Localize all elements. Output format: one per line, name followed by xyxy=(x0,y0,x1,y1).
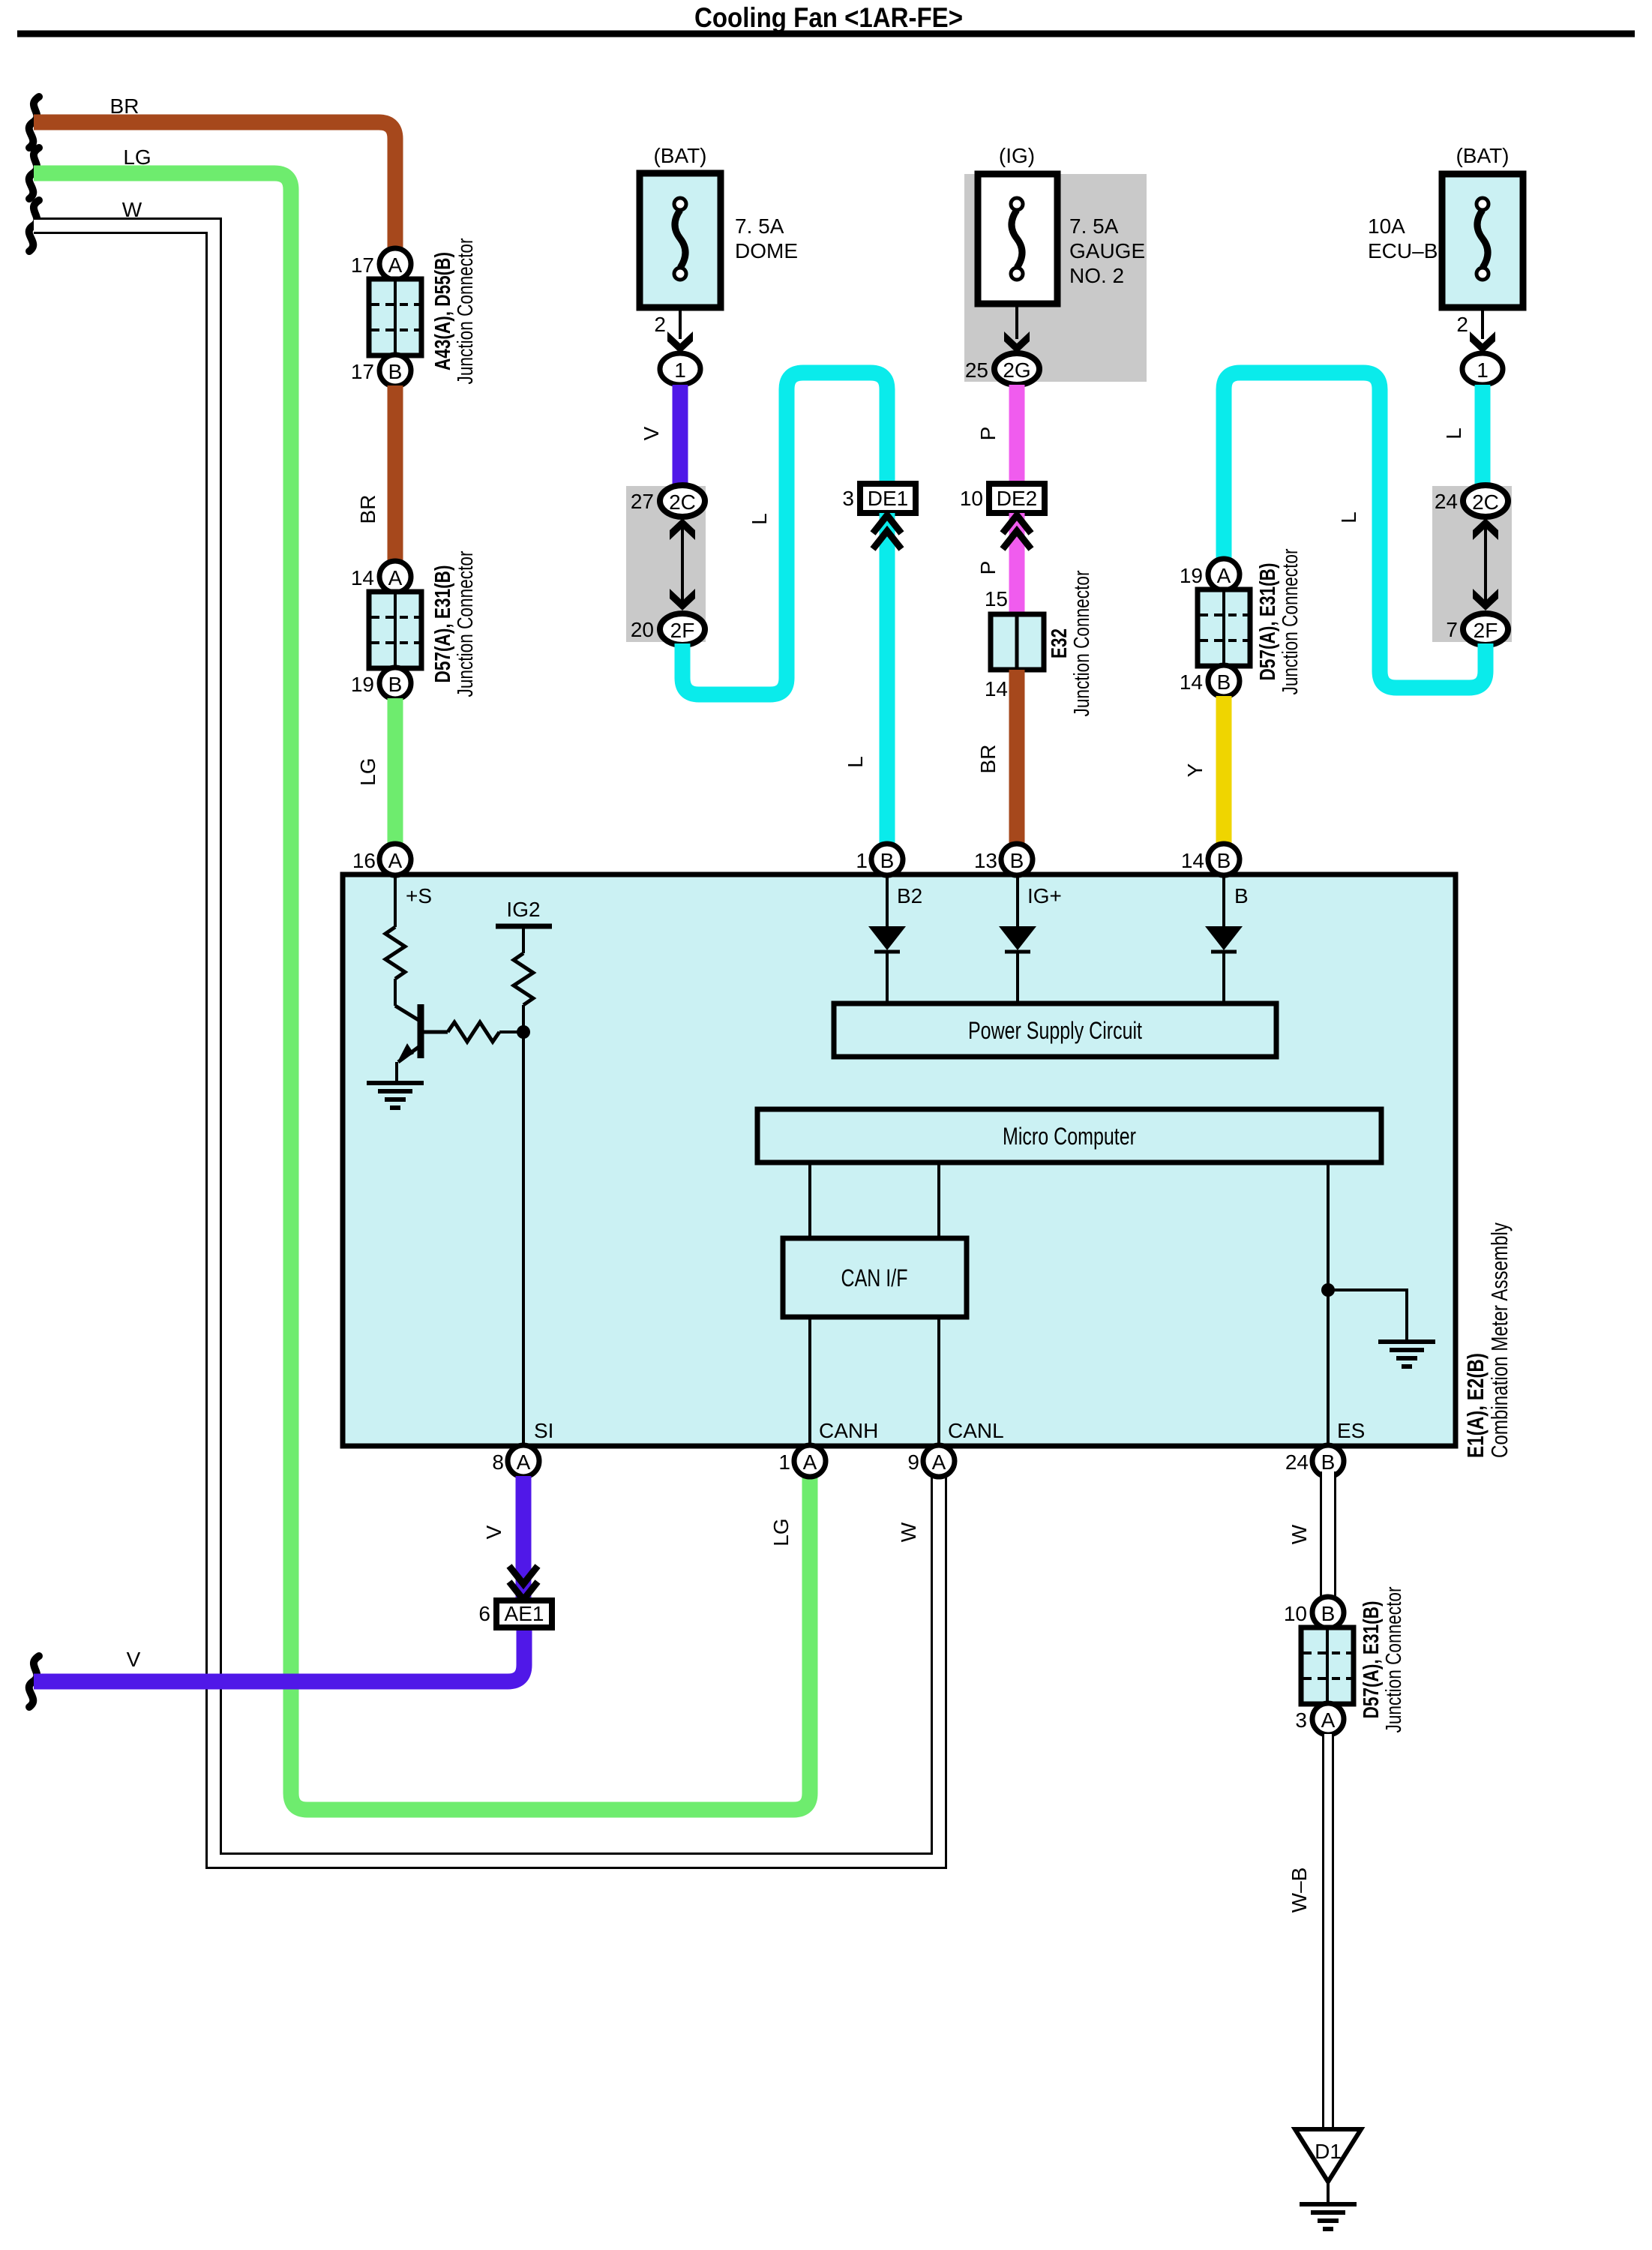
diode D2 xyxy=(868,874,906,1003)
svg-text:17: 17 xyxy=(351,253,374,277)
svg-text:AE1: AE1 xyxy=(505,1602,544,1625)
svg-text:D57(A), E31(B): D57(A), E31(B) xyxy=(431,565,455,683)
svg-text:B: B xyxy=(388,673,403,696)
svg-text:2: 2 xyxy=(654,313,666,336)
svg-text:(BAT): (BAT) xyxy=(653,144,706,167)
svg-text:Junction Connector: Junction Connector xyxy=(1382,1586,1406,1732)
CAN I/F block xyxy=(783,1238,967,1317)
svg-text:15: 15 xyxy=(985,587,1008,610)
svg-text:NO. 2: NO. 2 xyxy=(1069,264,1124,287)
svg-text:W–B: W–B xyxy=(1288,1867,1311,1913)
meter pin 1B (B2) xyxy=(856,844,922,907)
connector pass-through 2C/2F (instrument panel, right) xyxy=(1432,486,1512,642)
wire W-B from 3A to ground D1 xyxy=(1288,1734,1328,2129)
junction connector D57(A), E31(B) left pin 14A xyxy=(351,561,411,592)
wire micro computer to CAN I/F (left) xyxy=(808,1162,811,1238)
resistor R3 from IG2 xyxy=(514,953,533,1005)
wire V from SI pin to AE1 xyxy=(482,1476,523,1600)
svg-text:A: A xyxy=(388,253,403,277)
junction connector A43(A), D55(B) pin 17A xyxy=(351,248,411,280)
svg-text:Power Supply Circuit: Power Supply Circuit xyxy=(968,1017,1142,1044)
svg-text:D57(A), E31(B): D57(A), E31(B) xyxy=(1360,1601,1384,1719)
svg-text:Combination Meter Assembly: Combination Meter Assembly xyxy=(1486,1222,1513,1458)
svg-text:17: 17 xyxy=(351,360,374,383)
svg-text:3: 3 xyxy=(842,487,854,510)
svg-text:DOME: DOME xyxy=(735,239,798,262)
svg-text:L: L xyxy=(1442,427,1465,439)
svg-text:A43(A), D55(B): A43(A), D55(B) xyxy=(431,252,455,370)
connector pass-through 2C/2F (instrument panel, left) xyxy=(626,486,706,642)
connector DE2 pin 10 xyxy=(960,484,1045,513)
ground of Q1 emitter xyxy=(367,1083,424,1108)
junction node on ES xyxy=(1321,1283,1335,1297)
pin 7 connector 2F right xyxy=(1446,613,1508,645)
svg-text:2F: 2F xyxy=(1474,619,1498,642)
transistor Q1 xyxy=(395,1004,448,1083)
diode D3 xyxy=(999,874,1036,1003)
arrow between 2C and 2F right xyxy=(1473,518,1498,610)
wire L (cyan) from 2F to connector DE1 xyxy=(682,373,887,694)
svg-text:2F: 2F xyxy=(670,619,695,642)
svg-text:19: 19 xyxy=(351,673,374,696)
connector AE1 pin 6 xyxy=(478,1600,552,1627)
svg-text:GAUGE: GAUGE xyxy=(1069,239,1145,262)
wire W label at CANL leg xyxy=(897,1522,920,1542)
junction node at base divider xyxy=(517,1025,530,1039)
svg-text:SI: SI xyxy=(534,1419,553,1442)
fuse 10A ECU-B (BAT) xyxy=(1368,144,1523,307)
wire BR from 17B to 14A xyxy=(356,385,395,562)
pin 24 connector 2C right xyxy=(1435,485,1508,517)
svg-text:1: 1 xyxy=(674,358,686,382)
svg-text:V: V xyxy=(482,1525,505,1539)
svg-text:Junction Connector: Junction Connector xyxy=(1279,548,1303,694)
diode D4 xyxy=(1205,874,1243,1003)
wire V (violet) from left edge to connector AE1 xyxy=(29,1629,524,1707)
svg-text:+S: +S xyxy=(406,884,432,907)
svg-text:B: B xyxy=(1217,849,1231,872)
svg-text:IG+: IG+ xyxy=(1027,884,1062,907)
fuse 7.5A GAUGE NO.2 (IG) xyxy=(964,144,1147,382)
wire LG label at CANH leg xyxy=(769,1518,793,1546)
svg-text:L: L xyxy=(748,513,771,525)
wire micro computer to CAN I/F (right) xyxy=(937,1162,940,1238)
wire LG (light green) from left edge to CANH pin 1A xyxy=(29,145,810,1810)
power rail IG2 xyxy=(496,898,552,953)
svg-text:V: V xyxy=(127,1648,141,1671)
connector DE1 pin 3 xyxy=(842,484,916,513)
junction connector D57(A), E31(B) right body xyxy=(1198,548,1303,694)
svg-text:10A: 10A xyxy=(1368,214,1405,238)
meter pin 9A (CANL) xyxy=(907,1419,1003,1477)
svg-text:7. 5A: 7. 5A xyxy=(1069,214,1119,238)
combination meter assembly E1(A), E2(B) xyxy=(343,874,1513,1458)
svg-text:1: 1 xyxy=(856,849,868,872)
svg-text:2C: 2C xyxy=(669,490,696,514)
wire LG from 19B to meter pin 16A xyxy=(356,698,395,849)
svg-text:D57(A), E31(B): D57(A), E31(B) xyxy=(1256,563,1280,681)
svg-text:1: 1 xyxy=(778,1450,790,1474)
svg-text:19: 19 xyxy=(1180,564,1203,587)
junction connector D57(A), E31(B) left pin 19B xyxy=(351,667,411,699)
svg-text:BR: BR xyxy=(976,745,1000,774)
node 1 below ECU-B fuse xyxy=(1462,353,1503,385)
wire L from 2F right to junction connector pin 19A xyxy=(1224,373,1486,688)
meter pin 16A (+S) xyxy=(352,844,432,907)
svg-text:P: P xyxy=(976,427,1000,441)
svg-text:Junction Connector: Junction Connector xyxy=(454,550,478,697)
svg-text:DE2: DE2 xyxy=(997,487,1037,510)
wire P (pink) from 2G to connector DE2 xyxy=(976,385,1017,485)
svg-text:A: A xyxy=(1217,564,1231,587)
wire P from DE2 to junction connector E32 pin 15 xyxy=(976,513,1017,614)
harness arrow into DE2 xyxy=(1003,515,1031,549)
svg-text:7: 7 xyxy=(1446,618,1458,641)
svg-text:CANL: CANL xyxy=(948,1419,1004,1442)
svg-text:D1: D1 xyxy=(1315,2140,1342,2163)
svg-text:LG: LG xyxy=(123,145,151,169)
wire Y (yellow) from 14B to meter pin 14B xyxy=(1183,696,1224,849)
junction connector E32 xyxy=(985,570,1094,716)
harness arrow into DE1 xyxy=(873,515,901,549)
svg-text:P: P xyxy=(976,561,1000,575)
svg-text:B: B xyxy=(880,849,895,872)
svg-text:LG: LG xyxy=(356,757,379,785)
svg-text:16: 16 xyxy=(352,849,376,872)
pin 2 of ECU-B fuse xyxy=(1456,307,1495,353)
ground D1 xyxy=(1295,2129,1361,2229)
wire L from node 1 to connector 2C (right) xyxy=(1442,385,1483,487)
harness arrow into AE1 xyxy=(509,1566,538,1600)
svg-text:3: 3 xyxy=(1295,1708,1307,1732)
meter pin 14B (B) xyxy=(1181,844,1249,907)
svg-text:CANH: CANH xyxy=(819,1419,878,1442)
wire BR from E32 pin 14 to meter pin 13B xyxy=(976,670,1017,849)
internal ground branch xyxy=(1328,1290,1407,1342)
junction connector A43(A), D55(B) body xyxy=(369,238,478,384)
svg-text:A: A xyxy=(388,849,403,872)
wire V from node 1 to connector 2C xyxy=(640,385,680,487)
internal ground symbol xyxy=(1378,1342,1435,1366)
svg-text:20: 20 xyxy=(631,618,654,641)
svg-text:Junction Connector: Junction Connector xyxy=(1070,570,1094,716)
wire L from DE1 to meter pin 1B xyxy=(844,513,887,849)
meter pin 1A (CANH) xyxy=(778,1419,878,1477)
wire BR (brown) from left edge to junction connector pin 17A xyxy=(29,94,395,253)
arrow between 2C and 2F xyxy=(670,518,695,610)
svg-text:14: 14 xyxy=(351,566,374,589)
svg-text:24: 24 xyxy=(1435,490,1458,513)
svg-text:A: A xyxy=(388,566,403,589)
svg-text:V: V xyxy=(640,426,663,440)
wire W from ES pin to junction connector 10B xyxy=(1288,1471,1328,1599)
power supply circuit block xyxy=(834,1003,1276,1057)
svg-text:L: L xyxy=(844,756,867,768)
svg-text:14: 14 xyxy=(985,677,1008,700)
svg-text:B2: B2 xyxy=(897,884,922,907)
net CANL line xyxy=(937,1317,940,1446)
svg-text:2C: 2C xyxy=(1472,490,1499,514)
svg-text:Y: Y xyxy=(1183,763,1207,777)
pin 20 connector 2F xyxy=(631,613,705,645)
svg-text:B: B xyxy=(388,360,403,383)
svg-text:(BAT): (BAT) xyxy=(1456,144,1509,167)
svg-text:IG2: IG2 xyxy=(506,898,540,921)
svg-text:ES: ES xyxy=(1337,1419,1365,1442)
svg-text:24: 24 xyxy=(1285,1450,1309,1474)
svg-text:1: 1 xyxy=(1477,358,1489,382)
wire W (white) from left edge to CANL pin 9A xyxy=(29,198,939,1861)
svg-text:10: 10 xyxy=(960,487,983,510)
meter pin 8A (SI) xyxy=(492,1419,553,1477)
svg-text:Cooling Fan <1AR-FE>: Cooling Fan <1AR-FE> xyxy=(694,2,963,33)
resistor R2 (base) xyxy=(448,1022,523,1042)
svg-text:A: A xyxy=(932,1450,946,1474)
svg-text:8: 8 xyxy=(492,1450,504,1474)
meter pin 13B (IG+) xyxy=(974,844,1062,907)
svg-text:A: A xyxy=(1321,1708,1336,1732)
svg-text:B: B xyxy=(1217,670,1231,694)
svg-text:7. 5A: 7. 5A xyxy=(735,214,784,238)
svg-text:E1(A), E2(B): E1(A), E2(B) xyxy=(1462,1353,1489,1458)
svg-text:B: B xyxy=(1321,1602,1336,1625)
net ES line xyxy=(1327,1162,1330,1446)
net SI vertical line xyxy=(522,1005,525,1446)
meter pin 24B (ES) xyxy=(1285,1419,1366,1477)
svg-text:ECU–B: ECU–B xyxy=(1368,239,1438,262)
net CANH line xyxy=(808,1317,811,1446)
svg-text:(IG): (IG) xyxy=(999,144,1035,167)
pin 2 of DOME fuse xyxy=(654,307,693,353)
svg-text:9: 9 xyxy=(907,1450,919,1474)
junction connector D57(A), E31(B) left body xyxy=(369,550,478,697)
title rule xyxy=(17,31,1635,37)
svg-text:L: L xyxy=(1337,511,1360,523)
svg-text:BR: BR xyxy=(356,495,379,524)
junction connector D57(A), E31(B) bottom pin 10B xyxy=(1284,1597,1344,1628)
svg-text:Micro Computer: Micro Computer xyxy=(1003,1123,1136,1150)
pin 27 connector 2C xyxy=(631,485,705,517)
svg-text:W: W xyxy=(1288,1524,1311,1544)
junction connector D57(A), E31(B) bottom pin 3A xyxy=(1295,1703,1344,1735)
svg-text:27: 27 xyxy=(631,490,654,513)
svg-text:B: B xyxy=(1321,1450,1336,1474)
svg-text:CAN I/F: CAN I/F xyxy=(841,1264,908,1291)
title: Cooling Fan <1AR-FE> xyxy=(694,2,963,33)
node 1 below DOME fuse xyxy=(660,353,700,385)
svg-text:B: B xyxy=(1010,849,1024,872)
svg-text:W: W xyxy=(897,1522,920,1542)
svg-text:LG: LG xyxy=(769,1518,793,1546)
junction connector D57(A), E31(B) right pin 19A xyxy=(1180,559,1240,590)
micro computer block xyxy=(757,1109,1381,1162)
svg-text:E32: E32 xyxy=(1048,628,1072,658)
svg-text:2G: 2G xyxy=(1003,358,1030,382)
svg-text:25: 25 xyxy=(965,358,988,382)
pin 25 node 2G below GAUGE fuse xyxy=(965,304,1039,385)
svg-text:13: 13 xyxy=(974,849,997,872)
svg-text:14: 14 xyxy=(1181,849,1204,872)
svg-text:2: 2 xyxy=(1456,313,1468,336)
svg-text:6: 6 xyxy=(478,1602,490,1625)
svg-text:Junction Connector: Junction Connector xyxy=(454,238,478,384)
resistor R1 from +S xyxy=(385,874,405,1006)
svg-text:DE1: DE1 xyxy=(868,487,908,510)
junction connector D57(A), E31(B) right pin 14B xyxy=(1180,665,1240,697)
svg-text:BR: BR xyxy=(110,94,139,118)
junction connector D57(A), E31(B) bottom body xyxy=(1301,1586,1406,1732)
svg-text:A: A xyxy=(803,1450,817,1474)
fuse 7.5A DOME (BAT) xyxy=(640,144,798,307)
svg-text:14: 14 xyxy=(1180,670,1203,694)
svg-text:10: 10 xyxy=(1284,1602,1307,1625)
svg-text:B: B xyxy=(1234,884,1249,907)
junction connector A43(A), D55(B) pin 17B xyxy=(351,355,411,386)
svg-text:A: A xyxy=(517,1450,531,1474)
